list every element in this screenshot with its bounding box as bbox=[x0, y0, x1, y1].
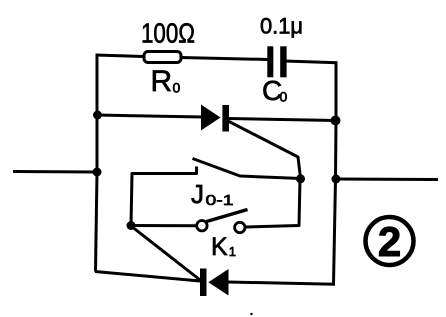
svg-text:J: J bbox=[191, 179, 204, 209]
svg-text:1: 1 bbox=[229, 244, 236, 259]
wire diagonal from K1 left junction to bottom diode bbox=[131, 226, 202, 282]
wire bottom right bbox=[228, 282, 335, 284]
switch J0-1 fixed contact wire and inner-left vertical bbox=[131, 167, 197, 226]
figure number circle bbox=[366, 217, 414, 265]
capacitor C0 left plate bbox=[267, 46, 273, 77]
junction dot D1 row right bbox=[331, 116, 341, 126]
wire bottom left bbox=[95, 272, 200, 282]
svg-text:0: 0 bbox=[280, 89, 288, 105]
wire top right of capacitor bbox=[285, 61, 338, 63]
contact K1 left circle bbox=[197, 221, 207, 231]
wire contact K1 left bbox=[131, 224, 197, 227]
wire from switch junction down to contact K1 right side bbox=[246, 179, 301, 227]
wire external left lead bbox=[13, 170, 97, 174]
wire external right lead bbox=[336, 178, 438, 182]
diode D2 triangle (pointing left) bbox=[208, 269, 228, 296]
speck bbox=[250, 313, 252, 315]
resistor R0 body bbox=[144, 52, 181, 63]
switch J0-1 blade bbox=[193, 159, 302, 179]
diode D1 triangle (pointing right) bbox=[201, 105, 221, 131]
svg-text:R: R bbox=[151, 65, 173, 98]
svg-text:K: K bbox=[211, 233, 228, 261]
capacitor C0 right plate bbox=[280, 46, 286, 77]
svg-text:0-1: 0-1 bbox=[206, 192, 234, 209]
wire top left of capacitor bbox=[96, 55, 269, 60]
wire top diode row right bbox=[228, 119, 336, 121]
junction dot D1 row left bbox=[93, 111, 102, 120]
svg-text:0.1μ: 0.1μ bbox=[260, 14, 303, 39]
diode D2 cathode bar bbox=[200, 269, 207, 297]
wire diagonal from D1 cathode to switch junction bbox=[228, 121, 301, 178]
junction dot left lead bbox=[93, 168, 102, 177]
contact K1 blade bbox=[207, 210, 248, 222]
junction dot K1 left bbox=[127, 221, 136, 230]
diode D1 cathode bar bbox=[222, 105, 229, 132]
junction dot switch right bbox=[296, 174, 305, 183]
wire top diode row left bbox=[97, 115, 203, 117]
wire right outer vertical bbox=[334, 62, 337, 285]
wire left outer vertical bbox=[96, 55, 98, 272]
svg-text:0: 0 bbox=[173, 80, 181, 96]
junction dot right lead bbox=[332, 175, 341, 184]
contact K1 right circle bbox=[235, 222, 245, 232]
svg-text:100Ω: 100Ω bbox=[141, 18, 195, 49]
svg-text:2: 2 bbox=[378, 218, 401, 265]
